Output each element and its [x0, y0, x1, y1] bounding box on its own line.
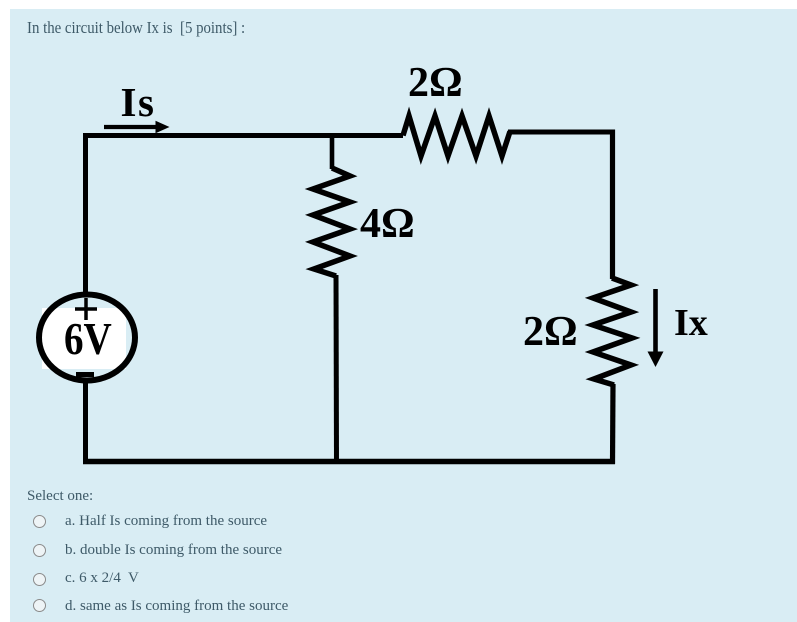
radio a — [33, 515, 46, 528]
label 4ohm — [360, 203, 415, 245]
radio c — [33, 573, 46, 586]
label Is — [121, 82, 156, 123]
label 2ohm top — [408, 62, 463, 104]
Ix current arrow — [653, 289, 658, 353]
radio d — [33, 599, 46, 612]
Is current arrow — [104, 125, 157, 129]
label 2ohm right — [523, 311, 578, 353]
voltage source V1 white label box — [42, 308, 126, 369]
wire left vertical upper (top node to source +) — [83, 133, 88, 293]
wire right vertical lower (R3 bottom to bottom wire) — [610, 384, 616, 464]
minus sign of source — [76, 372, 94, 377]
wire right vertical upper (top wire to R3) — [610, 130, 615, 280]
wire middle stub (top wire to R2) — [330, 134, 335, 170]
voltage source V1 circle — [39, 295, 135, 381]
label 6V inside source — [64, 316, 112, 362]
resistor R1 2ohm horizontal zigzag — [403, 116, 510, 156]
label Ix — [674, 304, 708, 342]
resistor R2 4ohm vertical zigzag — [313, 168, 350, 276]
radio b — [33, 544, 46, 557]
wire left vertical lower (source - to bottom node) — [83, 379, 88, 464]
wire middle vertical (R2 bottom to bottom wire) — [334, 275, 340, 464]
wire top-left horizontal (node A to R1 left lead) — [83, 133, 403, 138]
plus sign of source — [75, 298, 97, 320]
question text — [27, 20, 245, 37]
wire bottom horizontal — [83, 459, 615, 465]
wire top-right horizontal (R1 right lead to right branch) — [508, 130, 615, 135]
select one — [27, 489, 93, 504]
resistor R3 2ohm vertical zigzag — [593, 278, 632, 385]
